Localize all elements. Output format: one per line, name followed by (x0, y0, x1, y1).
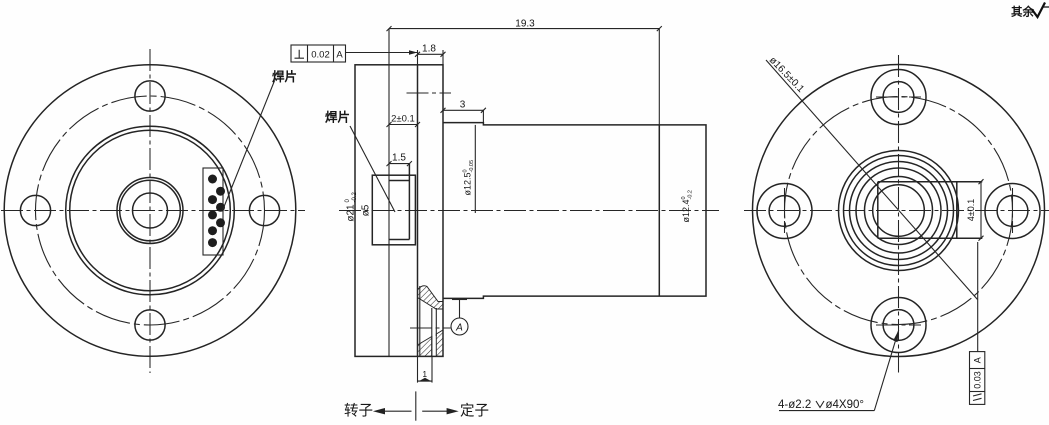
svg-text:0: 0 (463, 169, 469, 172)
svg-text:-0.2: -0.2 (688, 190, 694, 199)
dimension 1.8 (415, 50, 446, 65)
grommet top hatched wedge (418, 286, 444, 309)
svg-text:转子: 转子 (344, 403, 373, 420)
leader to parallelism frame (977, 242, 979, 352)
svg-text:4-ø2.2: 4-ø2.2 (778, 399, 811, 411)
right view top hole cross centerline (876, 96, 921, 98)
label ø21 0/-0.2 (rotated) (345, 191, 358, 221)
middle view horizontal centerline (339, 210, 719, 212)
left view rotor face inner circle (70, 130, 231, 291)
middle view outline: rotor block + flange plate (355, 65, 443, 357)
dimension 2±0.1 (387, 122, 421, 127)
right view boss circle 4 (856, 168, 941, 253)
dimension 19.3 (387, 26, 662, 125)
svg-text:19.3: 19.3 (515, 19, 535, 30)
right view bolt circle (dash-dot) (785, 97, 1013, 325)
svg-text:ø21: ø21 (346, 204, 357, 222)
svg-text:-0.2: -0.2 (352, 191, 358, 202)
right view vertical centerline (898, 55, 900, 373)
datum A stem (459, 300, 461, 319)
svg-text:-0.05: -0.05 (469, 160, 475, 173)
rotor bore counterbore box (372, 175, 415, 245)
solder-tab leader middle view (350, 126, 395, 212)
right view boss circle 3 (850, 162, 948, 260)
svg-text:1.8: 1.8 (422, 44, 436, 55)
upper connector centerline (dash-dot) (407, 92, 452, 94)
dimension 3 (441, 108, 486, 123)
svg-text:焊片: 焊片 (272, 69, 297, 84)
right view left hole countersink (757, 184, 812, 239)
countersink hole note leader (874, 330, 898, 411)
right view left hole cross centerline (784, 188, 786, 233)
right view left hole bore (769, 196, 800, 227)
frame leader arrowhead (409, 50, 418, 55)
left view left bolt hole (20, 195, 50, 225)
datum A balloon circle (451, 318, 468, 335)
stator arrow (422, 410, 455, 412)
svg-text:A: A (973, 357, 983, 363)
left view solder-tab leader line (223, 81, 275, 211)
svg-text:其余: 其余 (1011, 5, 1034, 19)
svg-text:2±0.1: 2±0.1 (391, 114, 415, 125)
feature control frame box (291, 45, 346, 62)
left view connector rectangle (203, 168, 223, 255)
rotor/stator divider bar (415, 391, 417, 420)
svg-text:3: 3 (460, 100, 466, 111)
svg-text:A: A (336, 50, 343, 61)
svg-text:1: 1 (422, 369, 427, 379)
right view right hole countersink (985, 184, 1040, 239)
right view top hole bore (883, 82, 914, 113)
grommet bottom hatched block left (418, 337, 432, 357)
right view right hole cross centerline (1012, 188, 1014, 233)
left view horizontal centerline (1, 210, 305, 212)
left view bottom bolt hole (135, 310, 165, 340)
parallelism feature control frame (rotated) (970, 352, 985, 405)
svg-text:A: A (455, 323, 463, 334)
right view boss circle 5 (865, 177, 933, 245)
left view rotor face outer circle (66, 126, 235, 295)
cylinder internal edge x=659.3 (658, 125, 660, 296)
rotor/flange divider line (417, 65, 419, 357)
dimension 1.5 (387, 161, 412, 166)
ø16.5 leader diagonal (766, 60, 978, 300)
rotor bore inner box (389, 164, 409, 240)
frame leader line to flange face (346, 52, 418, 54)
left view shaft hole circle (133, 193, 168, 228)
left view vertical centerline (149, 49, 151, 373)
label ø12.5 0/-0.05 (rotated) (463, 160, 476, 196)
grommet centerline (410, 327, 451, 329)
svg-text:ø12.5: ø12.5 (463, 172, 473, 195)
dimension 4±0.1 line (979, 179, 984, 241)
grommet bottom hatched block right (436, 330, 443, 356)
right view horizontal centerline (744, 210, 1049, 212)
right view outer flange circle (753, 65, 1045, 357)
left view bore ring circle (120, 180, 181, 241)
right view bottom hole cross centerline (876, 324, 921, 326)
right view boss circle 2 (844, 156, 954, 266)
countersink hole note underline (779, 410, 874, 412)
left view connector pin dots (208, 175, 225, 248)
right view bottom hole countersink (871, 298, 926, 353)
grommet inner wall line (419, 286, 421, 356)
left view bolt circle (dash-dot) (36, 96, 265, 325)
internal step edge line x=389 (388, 29, 390, 357)
left view top bolt hole (135, 81, 165, 111)
right view boss circle 1 (839, 151, 959, 271)
svg-text:ø12.4: ø12.4 (681, 199, 691, 222)
svg-text:0: 0 (681, 196, 687, 199)
left view outer flange circle (4, 65, 296, 357)
label ø12.4 0/-0.2 (rotated) (681, 190, 694, 222)
svg-text:焊片: 焊片 (325, 110, 350, 125)
svg-text:ø5: ø5 (361, 204, 372, 216)
svg-text:0.02: 0.02 (311, 50, 330, 61)
svg-text:4±0.1: 4±0.1 (966, 199, 976, 221)
right view right hole bore (997, 196, 1028, 227)
right view top hole countersink (871, 70, 926, 125)
parallelism symbol (rotated //) (973, 394, 982, 401)
svg-text:ø4X90°: ø4X90° (826, 399, 864, 411)
stator cylinder outline (443, 123, 706, 299)
svg-text:1.5: 1.5 (392, 153, 406, 164)
right view boss circle 6 (873, 185, 925, 237)
surface finish checkmark symbol (1032, 3, 1045, 18)
rotor arrow (376, 410, 412, 412)
svg-text:0.03: 0.03 (973, 371, 983, 389)
datum A target bar (452, 299, 467, 301)
left view bore counterbore circle (117, 178, 183, 244)
perpendicularity symbol (295, 50, 305, 59)
dimension 1 (bottom grommet wall) (418, 357, 433, 383)
ø12.5 extension line (474, 125, 476, 213)
left view right bolt hole (249, 195, 279, 225)
grommet middle wall lines (431, 308, 433, 356)
right view bottom hole bore (883, 310, 914, 341)
svg-text:定子: 定子 (460, 403, 489, 420)
right view key flat rectangle (878, 182, 983, 239)
